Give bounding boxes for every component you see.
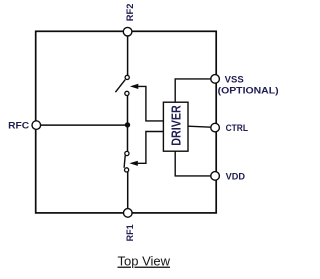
switch S1 bottom contact xyxy=(125,91,129,95)
arrow to switch S2 xyxy=(129,161,137,166)
switch S1 top contact xyxy=(125,75,129,79)
wire switch S2 bottom contact to RF1 pin xyxy=(127,172,129,209)
wire RFC pin to node A xyxy=(41,124,128,126)
switch S2 arm (closed, RF1 throw) xyxy=(124,155,125,167)
arrow to switch S1 xyxy=(130,84,138,89)
svg-text:RFC: RFC xyxy=(8,121,30,131)
switch S2 top contact xyxy=(125,151,129,155)
wire driver U1 to VSS pin xyxy=(175,79,211,102)
svg-text:CTRL: CTRL xyxy=(226,123,249,133)
wire driver U1 to CTRL pin xyxy=(188,126,211,127)
pin RFC xyxy=(32,121,41,130)
node A (RFC junction dot) xyxy=(125,122,130,127)
switch S1 arm (open, RF2 throw) xyxy=(115,80,125,93)
wire node A to switch contacts (RFC common rail) xyxy=(127,95,129,152)
svg-text:(OPTIONAL): (OPTIONAL) xyxy=(218,85,279,95)
pin CTRL xyxy=(211,123,220,132)
svg-text:DRIVER: DRIVER xyxy=(169,105,183,146)
wire RF2 pin to switch S1 top contact xyxy=(127,36,129,76)
wire driver U1 to S2 actuator xyxy=(137,132,163,164)
package outline xyxy=(36,31,217,213)
switch S2 bottom contact xyxy=(125,168,129,172)
pin VDD xyxy=(211,172,220,181)
svg-text:VSS: VSS xyxy=(225,75,244,85)
pin RF1 xyxy=(124,209,133,218)
wire driver U1 to S1 actuator xyxy=(137,86,163,121)
pin RF2 xyxy=(123,27,132,36)
svg-text:Top View: Top View xyxy=(118,254,171,269)
svg-text:VDD: VDD xyxy=(226,171,246,181)
wire driver U1 to VDD pin xyxy=(175,151,211,176)
svg-text:RF1: RF1 xyxy=(125,224,135,241)
svg-text:RF2: RF2 xyxy=(125,4,135,22)
pin VSS xyxy=(211,75,220,84)
driver U1 box xyxy=(163,102,188,151)
